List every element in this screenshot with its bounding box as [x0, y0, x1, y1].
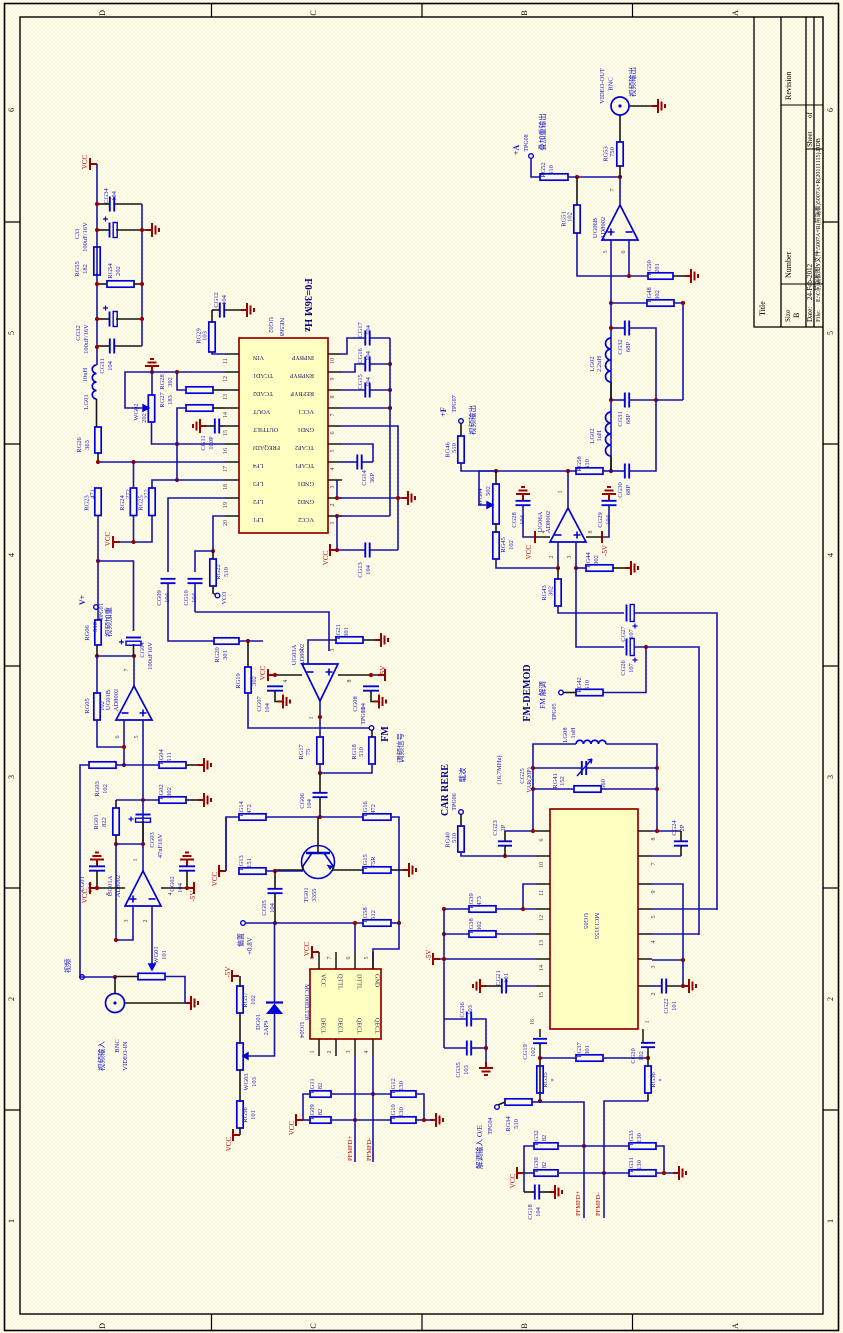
svg-text:510: 510 — [584, 459, 591, 469]
ground CG18 — [549, 1185, 562, 1199]
wire RG12 right riser — [416, 1094, 424, 1120]
svg-text:102: 102 — [99, 701, 106, 711]
svg-text:3: 3 — [7, 775, 16, 779]
svg-text:VCC: VCC — [525, 545, 533, 560]
capacitor CG15 — [365, 383, 369, 398]
wire RG43 bottom to CG27 — [558, 606, 624, 613]
svg-text:302: 302 — [166, 787, 173, 797]
resistor RG19 — [245, 667, 251, 693]
svg-text:B: B — [520, 10, 529, 15]
wire pin2 row to CG22 — [652, 985, 662, 987]
resistor RG38 — [469, 931, 496, 937]
connector BNC VIDEO-IN — [106, 994, 125, 1013]
wire RG19 bottom to TPG03 — [248, 693, 369, 728]
wire pin9 to CG16 — [342, 364, 365, 372]
ground RG31 — [673, 1166, 686, 1180]
capacitor CG34 — [110, 197, 114, 212]
wire pin3 GND1 down — [336, 480, 338, 498]
test point TPG01 — [94, 605, 99, 610]
resistor RG21 — [336, 637, 363, 643]
wire RG27 right — [213, 407, 225, 409]
wire RG32/RG30 left riser — [524, 1146, 534, 1192]
svg-text:104: 104 — [365, 324, 372, 335]
wire RG29 top to CG12 — [211, 310, 213, 322]
svg-text:RG11: RG11 — [309, 1078, 316, 1093]
svg-text:CG11: CG11 — [200, 435, 207, 450]
wire bias VCC riser x226 — [225, 817, 227, 871]
wire CG09 bottom to RG20 row — [168, 583, 214, 641]
svg-text:103: 103 — [202, 331, 209, 341]
svg-text:CG19: CG19 — [522, 1044, 529, 1060]
svg-text:510: 510 — [92, 622, 99, 632]
title block divider Number/Revision — [781, 104, 823, 106]
svg-text:151: 151 — [246, 858, 253, 868]
wire RG06 bottom — [96, 645, 98, 656]
svg-text:NE568: NE568 — [278, 318, 285, 336]
svg-text:WG03: WG03 — [243, 1073, 250, 1090]
svg-text:510: 510 — [451, 443, 458, 453]
svg-text:BNC: BNC — [608, 77, 615, 90]
junction RG37/CG20 — [646, 1056, 650, 1060]
wire RG23 bottom to V+ node — [97, 516, 99, 621]
wire BNC shell to ground — [629, 105, 652, 107]
wire C33 leads — [97, 229, 110, 231]
wire tank right riser — [606, 744, 657, 831]
wire TPG03 to RG18 — [371, 730, 373, 737]
svg-text:CG17: CG17 — [357, 321, 364, 337]
svg-text:107: 107 — [628, 628, 635, 639]
svg-text:560: 560 — [600, 779, 607, 789]
wire UG06A output — [567, 471, 569, 508]
wire WG03 to RG56 — [239, 1070, 241, 1101]
svg-text:CG22: CG22 — [663, 998, 670, 1014]
svg-text:510: 510 — [584, 680, 591, 690]
resistor RG25 — [149, 488, 155, 516]
svg-text:RG01: RG01 — [93, 814, 100, 830]
svg-text:+0.8V: +0.8V — [246, 937, 254, 955]
resistor RG16 — [363, 814, 391, 820]
wire FREQADJ down to LF3 — [176, 444, 178, 480]
svg-text:VCC: VCC — [211, 871, 219, 886]
svg-text:RG42: RG42 — [576, 677, 583, 693]
svg-text:RG34: RG34 — [505, 1115, 512, 1131]
wire pin6 row to RG04 — [124, 764, 159, 766]
capacitor CG31 — [110, 339, 114, 354]
svg-text:TPG05: TPG05 — [552, 703, 558, 720]
wire RG24 top — [133, 462, 135, 488]
wire TG01 emitter left — [275, 866, 303, 870]
svg-text:(16.7MHz): (16.7MHz) — [496, 755, 503, 784]
svg-text:2: 2 — [549, 556, 555, 559]
diode DG01 — [266, 1001, 283, 1003]
NE568 left pin stubs — [225, 353, 239, 355]
svg-text:LF1: LF1 — [253, 516, 263, 523]
capacitor CG32 68P — [625, 321, 629, 336]
svg-text:CG05: CG05 — [261, 900, 268, 916]
junction output row — [132, 654, 136, 658]
junction WG01/video in — [113, 975, 117, 979]
capacitor CG23 — [498, 841, 512, 845]
UG05 bottom pin 16 stub — [539, 1029, 541, 1036]
potentiometer WG04 — [493, 484, 499, 524]
resistor RG35 — [537, 1066, 543, 1093]
svg-text:RG32: RG32 — [533, 1130, 540, 1146]
svg-text:472: 472 — [370, 804, 377, 814]
wire RG01 bottom — [115, 835, 117, 844]
svg-text:CG02: CG02 — [169, 876, 176, 892]
svg-text:偏置: 偏置 — [236, 933, 245, 947]
svg-text:of: of — [806, 112, 814, 119]
svg-text:Revision: Revision — [784, 72, 793, 100]
power symbol VCC RG56 — [233, 1129, 240, 1141]
wire CG35 left — [444, 1047, 467, 1049]
wire CG36 left — [444, 1018, 467, 1020]
resistor RG04 — [159, 762, 186, 768]
svg-text:13: 13 — [223, 394, 229, 400]
capacitor CG36 — [467, 1012, 471, 1027]
svg-text:RG55: RG55 — [74, 261, 81, 277]
svg-text:LG02: LG02 — [589, 356, 596, 371]
wire CG21 leads — [486, 985, 502, 987]
capacitor CG35 — [467, 1041, 471, 1056]
svg-text:1: 1 — [309, 717, 315, 720]
wire UG06B pin5 column down — [610, 276, 612, 471]
capacitor C33 — [109, 223, 111, 238]
junction GND2 stub — [335, 496, 339, 500]
svg-text:RG48: RG48 — [646, 287, 653, 303]
svg-text:103: 103 — [251, 1077, 258, 1087]
wire pin8 row — [652, 830, 681, 832]
wire vertical bus x390 — [389, 338, 391, 516]
capacitor CG10 — [188, 579, 203, 583]
capacitor CG21 — [502, 979, 506, 994]
svg-text:202: 202 — [141, 413, 148, 423]
svg-text:750: 750 — [609, 147, 616, 157]
svg-text:12: 12 — [539, 915, 545, 921]
wire CG28 bottom to pin4 — [523, 505, 535, 537]
wire RG28 right — [213, 389, 225, 391]
junction CG19/RG37 — [538, 1056, 542, 1060]
wire BNC video-in center — [114, 977, 116, 994]
junction RG06 bottom — [95, 654, 99, 658]
svg-text:RG38: RG38 — [468, 918, 475, 934]
wire PFMFD+ column — [540, 1102, 584, 1218]
wire RG03 left riser — [80, 765, 89, 977]
resistor RG31 — [629, 1170, 656, 1176]
svg-text:272: 272 — [144, 489, 151, 499]
svg-text:RG58: RG58 — [576, 456, 583, 472]
wire pin5 TCAP2 — [342, 444, 373, 462]
svg-text:302: 302 — [251, 676, 258, 686]
transistor TG01 — [302, 846, 335, 879]
svg-text:2: 2 — [651, 993, 657, 996]
svg-text:104: 104 — [306, 798, 313, 809]
svg-text:UG04: UG04 — [298, 1022, 305, 1039]
svg-text:RG27: RG27 — [159, 391, 166, 407]
wire -5V rail to pin14 — [440, 958, 536, 960]
svg-text:12: 12 — [223, 376, 229, 382]
junction PFMFD+ RG32 row — [582, 1144, 586, 1148]
svg-text:VCC: VCC — [509, 1173, 517, 1188]
wire RG58 right — [391, 922, 399, 924]
wire RG51 top — [576, 177, 578, 205]
svg-text:Size: Size — [784, 310, 792, 322]
svg-text:-5V: -5V — [425, 950, 433, 961]
svg-text:CG20: CG20 — [630, 1048, 637, 1064]
svg-text:VCC: VCC — [288, 1120, 296, 1135]
wire RG02 right — [186, 799, 198, 801]
svg-text:CG30: CG30 — [617, 482, 624, 498]
wire CG18 leads — [524, 1191, 535, 1193]
ground RG02 — [198, 793, 211, 807]
svg-text:16: 16 — [223, 448, 229, 454]
svg-text:3: 3 — [826, 775, 835, 779]
wire RG32 row right — [558, 1145, 629, 1147]
junction pin1 — [335, 514, 339, 518]
svg-text:CG06: CG06 — [299, 792, 306, 808]
variable capacitor CG25 — [582, 761, 586, 775]
wire RG36 bottom to PFMFD- column — [604, 1101, 648, 1218]
svg-text:UG06B: UG06B — [592, 217, 599, 238]
svg-text:102: 102 — [567, 212, 574, 222]
junction RG17/CG06 — [318, 771, 322, 775]
svg-text:471: 471 — [90, 489, 97, 499]
svg-text:VIDEO-OUT: VIDEO-OUT — [599, 68, 606, 104]
junction CG30 tap — [609, 469, 613, 473]
wire CG35 riser to ground — [485, 1048, 487, 1062]
capacitor CG11 — [215, 419, 219, 434]
wire RG16 right riser — [373, 817, 399, 969]
test point TPG03 — [369, 726, 374, 731]
wire UG01B output — [133, 656, 135, 686]
ground CG35 — [479, 1062, 493, 1075]
ground CG21 — [473, 979, 486, 993]
wire CG34 left lead — [97, 203, 110, 205]
junction pin6/RG03 — [122, 763, 126, 767]
wire UG01B pin5 — [142, 720, 144, 844]
svg-text:*: * — [658, 1078, 665, 1081]
svg-text:C: C — [309, 10, 318, 15]
svg-text:RG28: RG28 — [159, 374, 166, 390]
svg-text:272: 272 — [125, 489, 132, 499]
resistor RG36 — [645, 1066, 651, 1093]
svg-text:82: 82 — [541, 1135, 548, 1142]
svg-text:3: 3 — [346, 1051, 352, 1054]
svg-text:RG21: RG21 — [335, 624, 342, 640]
svg-text:RG57: RG57 — [242, 991, 249, 1007]
svg-text:182: 182 — [82, 264, 89, 274]
svg-text:RG09: RG09 — [309, 1104, 316, 1120]
wire RG19 top — [247, 641, 249, 667]
svg-text:7: 7 — [610, 189, 616, 192]
inductor LG02 1uH — [606, 412, 612, 456]
junction rail WG04 — [494, 469, 498, 473]
svg-text:LG08: LG08 — [562, 727, 569, 742]
svg-text:152: 152 — [559, 776, 566, 786]
ground RG10 — [430, 1113, 443, 1127]
junction pin3 rail — [114, 938, 118, 942]
svg-text:104: 104 — [264, 702, 271, 713]
wire RG05 top — [96, 656, 98, 693]
wire RG11/RG09 left riser — [303, 1094, 310, 1120]
resistor RG06 — [95, 620, 101, 645]
power symbol VCC top-left — [90, 158, 97, 170]
resistor RG28 — [186, 387, 213, 393]
wire RG04 right — [186, 764, 198, 766]
svg-text:RG17: RG17 — [298, 743, 305, 759]
svg-text:1: 1 — [826, 1219, 835, 1223]
connector BNC VIDEO-OUT — [611, 97, 629, 115]
wire CG16 right — [370, 363, 390, 365]
junction rail RG50 left — [627, 274, 631, 278]
resistor RG37 — [576, 1055, 603, 1061]
ground pot top — [145, 359, 159, 372]
power symbol VCC RG13 — [219, 865, 226, 877]
junction RG31 riser — [662, 1171, 666, 1175]
svg-text:GND2: GND2 — [298, 498, 315, 505]
svg-text:1: 1 — [133, 859, 139, 862]
power symbol VCC RG09 — [296, 1114, 303, 1126]
svg-text:RG14: RG14 — [238, 800, 245, 816]
svg-text:CG32: CG32 — [617, 339, 624, 355]
resistor RG55 — [94, 247, 100, 275]
svg-text:DECL: DECL — [337, 1018, 344, 1034]
wire UG03A pin4 — [275, 674, 302, 676]
svg-text:CG15: CG15 — [357, 374, 364, 390]
svg-text:RG02: RG02 — [158, 784, 165, 800]
svg-text:VCC: VCC — [104, 531, 112, 546]
svg-text:RG52: RG52 — [540, 162, 547, 178]
ECL translator UG04 MC100ELT28 block — [310, 969, 381, 1039]
resistor RG17 — [317, 737, 323, 764]
svg-text:47uF16V: 47uF16V — [157, 833, 164, 858]
svg-text:2: 2 — [327, 1051, 333, 1054]
wire row12 to wiper loop — [125, 372, 152, 408]
svg-text:103: 103 — [463, 1065, 470, 1075]
svg-text:7: 7 — [124, 669, 130, 672]
svg-text:RNPBYP: RNPBYP — [289, 372, 314, 379]
wire CG08 bottom — [371, 691, 373, 702]
svg-text:2: 2 — [7, 997, 16, 1001]
junction pin4 RG11 row — [371, 1092, 375, 1096]
junction TCAD1/RG28 — [175, 370, 179, 374]
svg-text:6: 6 — [7, 108, 16, 112]
title block divider Size/Number — [781, 283, 823, 285]
svg-text:510: 510 — [451, 833, 458, 843]
svg-text:183: 183 — [167, 395, 174, 405]
svg-text:RG35: RG35 — [542, 1072, 549, 1088]
svg-text:104: 104 — [365, 376, 372, 387]
svg-text:VCC: VCC — [81, 888, 89, 903]
test point TPG05 — [559, 690, 564, 695]
wire UG03A output — [319, 701, 321, 737]
svg-text:VCC: VCC — [259, 665, 267, 680]
wire RG36 bottom — [647, 1093, 649, 1101]
wire VCC rail x97 — [96, 164, 98, 365]
svg-text:Sheet: Sheet — [806, 131, 814, 147]
svg-text:6: 6 — [346, 957, 352, 960]
junction CG31 right — [654, 398, 658, 402]
junction LF3 — [175, 478, 179, 482]
junction CG02/-5V — [185, 886, 189, 890]
svg-text:301: 301 — [222, 650, 229, 660]
svg-text:+A: +A — [512, 145, 521, 156]
svg-text:CG03: CG03 — [149, 832, 156, 848]
wire UG01A pin2 wiper — [151, 906, 153, 966]
svg-text:3: 3 — [124, 920, 130, 923]
svg-text:24-Feb-2012: 24-Feb-2012 — [806, 263, 814, 300]
svg-text:101: 101 — [671, 1001, 678, 1011]
resistor RG52 — [540, 174, 568, 180]
svg-text:202: 202 — [115, 266, 122, 276]
svg-text:CG31: CG31 — [99, 358, 106, 374]
wire RG57 to WG03 — [239, 1013, 241, 1043]
resistor RG54 — [107, 281, 134, 287]
svg-text:82: 82 — [317, 1083, 324, 1090]
wire RG42 right riser — [603, 647, 646, 693]
resistor RG01 — [113, 808, 119, 835]
svg-text:4: 4 — [168, 893, 174, 896]
svg-text:TPG07: TPG07 — [452, 395, 458, 412]
junction rail UG06A out — [566, 469, 570, 473]
wire WG04 wiper loop — [479, 471, 496, 505]
resistor RG53 — [617, 142, 623, 166]
svg-text:VCO: VCO — [222, 591, 228, 604]
junction pin8 — [369, 673, 373, 677]
svg-text:2: 2 — [299, 649, 305, 652]
svg-text:7: 7 — [651, 863, 657, 866]
svg-text:CG28: CG28 — [511, 512, 518, 528]
svg-text:RG06: RG06 — [84, 624, 91, 640]
wire RG14 left riser — [226, 817, 239, 871]
wire CG03 bottom — [142, 821, 144, 844]
svg-text:RG03: RG03 — [94, 781, 101, 797]
wire RG01 rail down — [115, 844, 117, 940]
resistor RG51 — [574, 205, 580, 233]
wire TPG06 to RG40 — [460, 814, 462, 826]
power symbol VCC at NE568 VCC2 — [330, 544, 337, 556]
svg-text:RG05: RG05 — [84, 698, 91, 714]
junction pin4 — [273, 673, 277, 677]
svg-text:510: 510 — [223, 567, 230, 577]
svg-text:3: 3 — [330, 486, 336, 489]
resistor RG11 — [310, 1091, 331, 1097]
svg-text:100uF/16V: 100uF/16V — [83, 324, 90, 354]
svg-text:CG08: CG08 — [352, 696, 359, 712]
resistor RG40 — [458, 826, 464, 852]
resistor RG46 — [458, 436, 464, 463]
svg-text:DTTL: DTTL — [356, 974, 363, 990]
wire RG45 bottom to pin2 row — [496, 559, 558, 568]
terminal VCO — [215, 593, 220, 598]
wire CG12 leads — [212, 309, 220, 311]
wire CG27 right to pin5 column — [634, 613, 717, 910]
svg-text:RG39: RG39 — [468, 893, 475, 909]
svg-text:TCAP2: TCAP2 — [295, 444, 314, 451]
svg-text:104: 104 — [221, 294, 228, 305]
svg-text:18: 18 — [223, 484, 229, 490]
svg-text:D: D — [98, 10, 107, 16]
svg-text:PFMFD-: PFMFD- — [366, 1138, 373, 1161]
junction VCC2/CG13 — [335, 548, 339, 552]
power symbol VCC UG06A pin4 — [534, 531, 536, 543]
wire TG01 base — [317, 817, 319, 853]
wire CG06 leads — [319, 773, 321, 793]
svg-text:510: 510 — [513, 1119, 520, 1129]
svg-text:2AP9: 2AP9 — [263, 1021, 270, 1036]
svg-text:UG01B: UG01B — [105, 689, 112, 710]
svg-text:11: 11 — [539, 890, 545, 896]
